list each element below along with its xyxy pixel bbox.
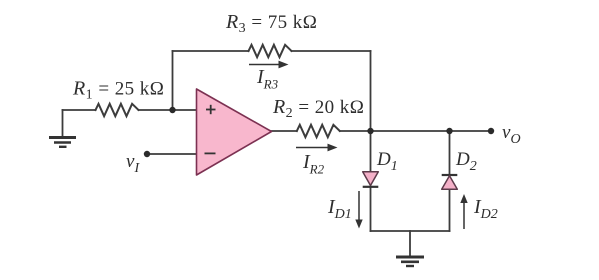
svg-text:ID1: ID1 bbox=[327, 196, 352, 222]
diode D1 bbox=[363, 172, 379, 187]
svg-text:IR3: IR3 bbox=[256, 66, 279, 92]
current arrow ID2 bbox=[460, 194, 467, 229]
wire top-left vertical (node A to top) bbox=[172, 51, 174, 110]
wire R1 left lead from ground bbox=[63, 109, 96, 111]
op-amp + pin bbox=[206, 105, 216, 114]
resistor R1 bbox=[96, 104, 139, 116]
svg-text:R1 = 25 kΩ: R1 = 25 kΩ bbox=[72, 78, 164, 103]
wire op-amp output to R2 bbox=[271, 130, 297, 132]
current arrow IR2 bbox=[296, 144, 338, 152]
svg-text:vO: vO bbox=[502, 122, 521, 147]
wire ground stub left bbox=[62, 110, 64, 136]
wire D1 branch lower bbox=[370, 187, 372, 231]
node C junction dot (D2) bbox=[446, 128, 452, 134]
svg-text:R3 = 75 kΩ: R3 = 75 kΩ bbox=[225, 11, 317, 36]
wire R1 to op-amp + input bbox=[139, 109, 197, 111]
wire top-right vertical down to output node bbox=[370, 51, 372, 131]
op-amp U1 bbox=[197, 89, 272, 175]
node B junction dot (output / D1) bbox=[367, 128, 373, 134]
wire ground stub bottom bbox=[409, 231, 411, 255]
resistor R2 bbox=[297, 125, 340, 137]
svg-text:R2 = 20 kΩ: R2 = 20 kΩ bbox=[272, 96, 364, 121]
wire bottom horizontal bbox=[371, 230, 450, 232]
wire D2 branch upper bbox=[449, 131, 451, 175]
svg-text:IR2: IR2 bbox=[302, 151, 325, 177]
node vI terminal dot bbox=[144, 151, 150, 157]
ground left bbox=[49, 138, 76, 147]
ground bottom bbox=[396, 257, 424, 266]
wire R2 to node vO bbox=[340, 130, 491, 132]
wire D1 branch upper bbox=[370, 131, 372, 172]
node vO terminal dot bbox=[488, 128, 494, 134]
current arrow ID1 bbox=[355, 191, 362, 229]
op-amp - pin bbox=[205, 152, 216, 154]
diode D2 bbox=[442, 175, 458, 189]
svg-text:vI: vI bbox=[126, 151, 140, 176]
svg-text:ID2: ID2 bbox=[473, 196, 498, 222]
wire top horizontal R3 to right vertical bbox=[292, 50, 371, 52]
wire D2 branch lower bbox=[449, 189, 451, 231]
svg-text:D1: D1 bbox=[376, 149, 398, 174]
current arrow IR3 bbox=[249, 61, 289, 69]
wire vI to op-amp - input bbox=[147, 153, 197, 155]
node A junction dot (R1/+ input) bbox=[169, 107, 175, 113]
svg-text:D2: D2 bbox=[455, 149, 477, 174]
resistor R3 bbox=[249, 45, 292, 57]
wire top horizontal left lead to R3 bbox=[173, 50, 249, 52]
